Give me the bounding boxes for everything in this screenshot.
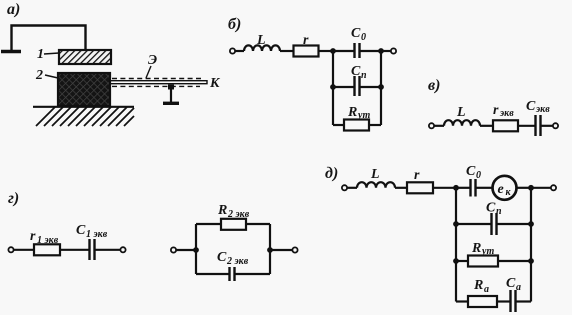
inductor L (v) xyxy=(444,120,480,126)
capacitor Cp (d) xyxy=(456,223,491,225)
node xyxy=(528,185,534,191)
svg-text:а): а) xyxy=(7,1,20,18)
svg-text:ут: ут xyxy=(357,110,370,121)
svg-text:2: 2 xyxy=(35,68,43,83)
svg-text:C: C xyxy=(351,64,361,79)
svg-text:а: а xyxy=(516,282,521,293)
left branch vertical xyxy=(332,51,334,125)
wire xyxy=(270,249,293,251)
svg-text:L: L xyxy=(456,105,466,120)
node xyxy=(378,84,384,90)
terminal left v xyxy=(429,123,434,128)
terminal right b xyxy=(391,48,396,53)
svg-text:1 экв: 1 экв xyxy=(37,235,59,246)
node xyxy=(528,221,534,227)
wire to terminal xyxy=(531,187,551,189)
svg-text:п: п xyxy=(361,70,367,81)
terminal right d xyxy=(551,185,556,190)
node xyxy=(330,48,336,54)
wire xyxy=(319,50,334,52)
svg-text:экв: экв xyxy=(499,108,514,119)
svg-text:е: е xyxy=(498,182,504,197)
node xyxy=(453,185,459,191)
beam Э dashed top xyxy=(112,78,203,80)
crystal block 2 xyxy=(58,73,110,106)
svg-text:L: L xyxy=(370,167,380,182)
loop left vertical xyxy=(195,224,197,274)
right vertical (d) xyxy=(530,188,532,302)
svg-text:0: 0 xyxy=(361,32,366,43)
wire xyxy=(480,125,493,127)
svg-text:К: К xyxy=(209,76,221,91)
node xyxy=(193,247,199,253)
terminal right g1 xyxy=(120,247,125,252)
capacitor C2ekv xyxy=(196,273,229,275)
wire top electrode lead xyxy=(12,26,86,51)
resistor r (b) xyxy=(294,46,319,57)
inductor L (d) xyxy=(357,182,395,188)
wire xyxy=(434,125,444,127)
resistor r_ekv xyxy=(493,120,518,131)
right branch vertical xyxy=(380,51,382,125)
svg-text:R: R xyxy=(471,241,481,256)
svg-text:0: 0 xyxy=(476,170,481,181)
svg-text:C: C xyxy=(351,26,361,41)
svg-text:C: C xyxy=(76,223,86,238)
svg-text:L: L xyxy=(256,33,266,48)
node xyxy=(330,84,336,90)
svg-text:C: C xyxy=(526,99,536,114)
terminal left d xyxy=(342,185,347,190)
svg-text:r: r xyxy=(493,103,499,118)
svg-text:п: п xyxy=(496,206,502,217)
svg-text:2 экв: 2 экв xyxy=(227,209,250,220)
svg-text:в): в) xyxy=(428,77,440,94)
terminal left g1 xyxy=(8,247,13,252)
node xyxy=(453,221,459,227)
svg-text:а: а xyxy=(484,284,489,295)
wire xyxy=(433,187,456,189)
wire xyxy=(517,187,531,189)
svg-text:2 экв: 2 экв xyxy=(226,256,249,267)
svg-text:г): г) xyxy=(8,190,19,207)
wire to terminal xyxy=(381,50,391,52)
wire xyxy=(235,50,244,52)
electrode 1 xyxy=(59,50,111,64)
terminal left g2 xyxy=(171,247,176,252)
capacitor C_ekv xyxy=(534,115,536,136)
svg-text:R: R xyxy=(473,278,483,293)
wire xyxy=(518,125,535,127)
wire xyxy=(280,50,294,52)
base hatched xyxy=(33,106,134,108)
terminal right g2 xyxy=(292,247,297,252)
svg-text:1: 1 xyxy=(37,47,44,62)
beam Э dashed bottom xyxy=(112,85,200,87)
svg-text:1 экв: 1 экв xyxy=(86,229,108,240)
svg-text:д): д) xyxy=(325,165,338,182)
resistor Rut (b) xyxy=(333,124,344,126)
svg-text:экв: экв xyxy=(535,104,550,115)
wire xyxy=(95,249,121,251)
node xyxy=(267,247,273,253)
wire xyxy=(497,300,510,302)
svg-text:ут: ут xyxy=(481,246,494,257)
node xyxy=(378,48,384,54)
svg-text:C: C xyxy=(466,164,476,179)
inductor L (b) xyxy=(244,45,280,51)
left terminal T bar xyxy=(1,50,21,54)
wire xyxy=(395,187,407,189)
terminal right v xyxy=(553,123,558,128)
capacitor Ca xyxy=(509,290,511,312)
resistor r (d) xyxy=(407,182,433,193)
beam support xyxy=(168,85,174,90)
capacitor Cp (b) xyxy=(333,86,354,88)
node xyxy=(528,258,534,264)
loop right vertical xyxy=(269,224,271,274)
svg-text:C: C xyxy=(486,201,496,216)
svg-text:C: C xyxy=(506,276,516,291)
svg-text:r: r xyxy=(303,33,309,48)
svg-text:R: R xyxy=(347,105,357,120)
svg-text:r: r xyxy=(30,229,36,244)
svg-text:б): б) xyxy=(228,16,241,33)
svg-text:Э: Э xyxy=(148,53,157,68)
source ek circle xyxy=(493,176,517,200)
resistor R2ekv xyxy=(196,223,221,225)
wire xyxy=(347,187,357,189)
svg-text:R: R xyxy=(217,203,227,218)
left vertical (d) xyxy=(455,188,457,302)
svg-text:r: r xyxy=(414,168,420,183)
capacitor C0 (b) xyxy=(333,50,354,52)
svg-text:C: C xyxy=(217,250,227,265)
node xyxy=(453,258,459,264)
capacitor C0 (d) xyxy=(456,187,470,189)
resistor Ra xyxy=(456,300,468,302)
resistor Rut (d) xyxy=(456,260,468,262)
wire xyxy=(176,249,196,251)
wire xyxy=(14,249,35,251)
wire xyxy=(60,249,89,251)
resistor r1ekv xyxy=(34,244,60,255)
beam Э solid xyxy=(110,81,207,84)
capacitor C1ekv xyxy=(88,239,90,260)
terminal left b xyxy=(230,48,235,53)
